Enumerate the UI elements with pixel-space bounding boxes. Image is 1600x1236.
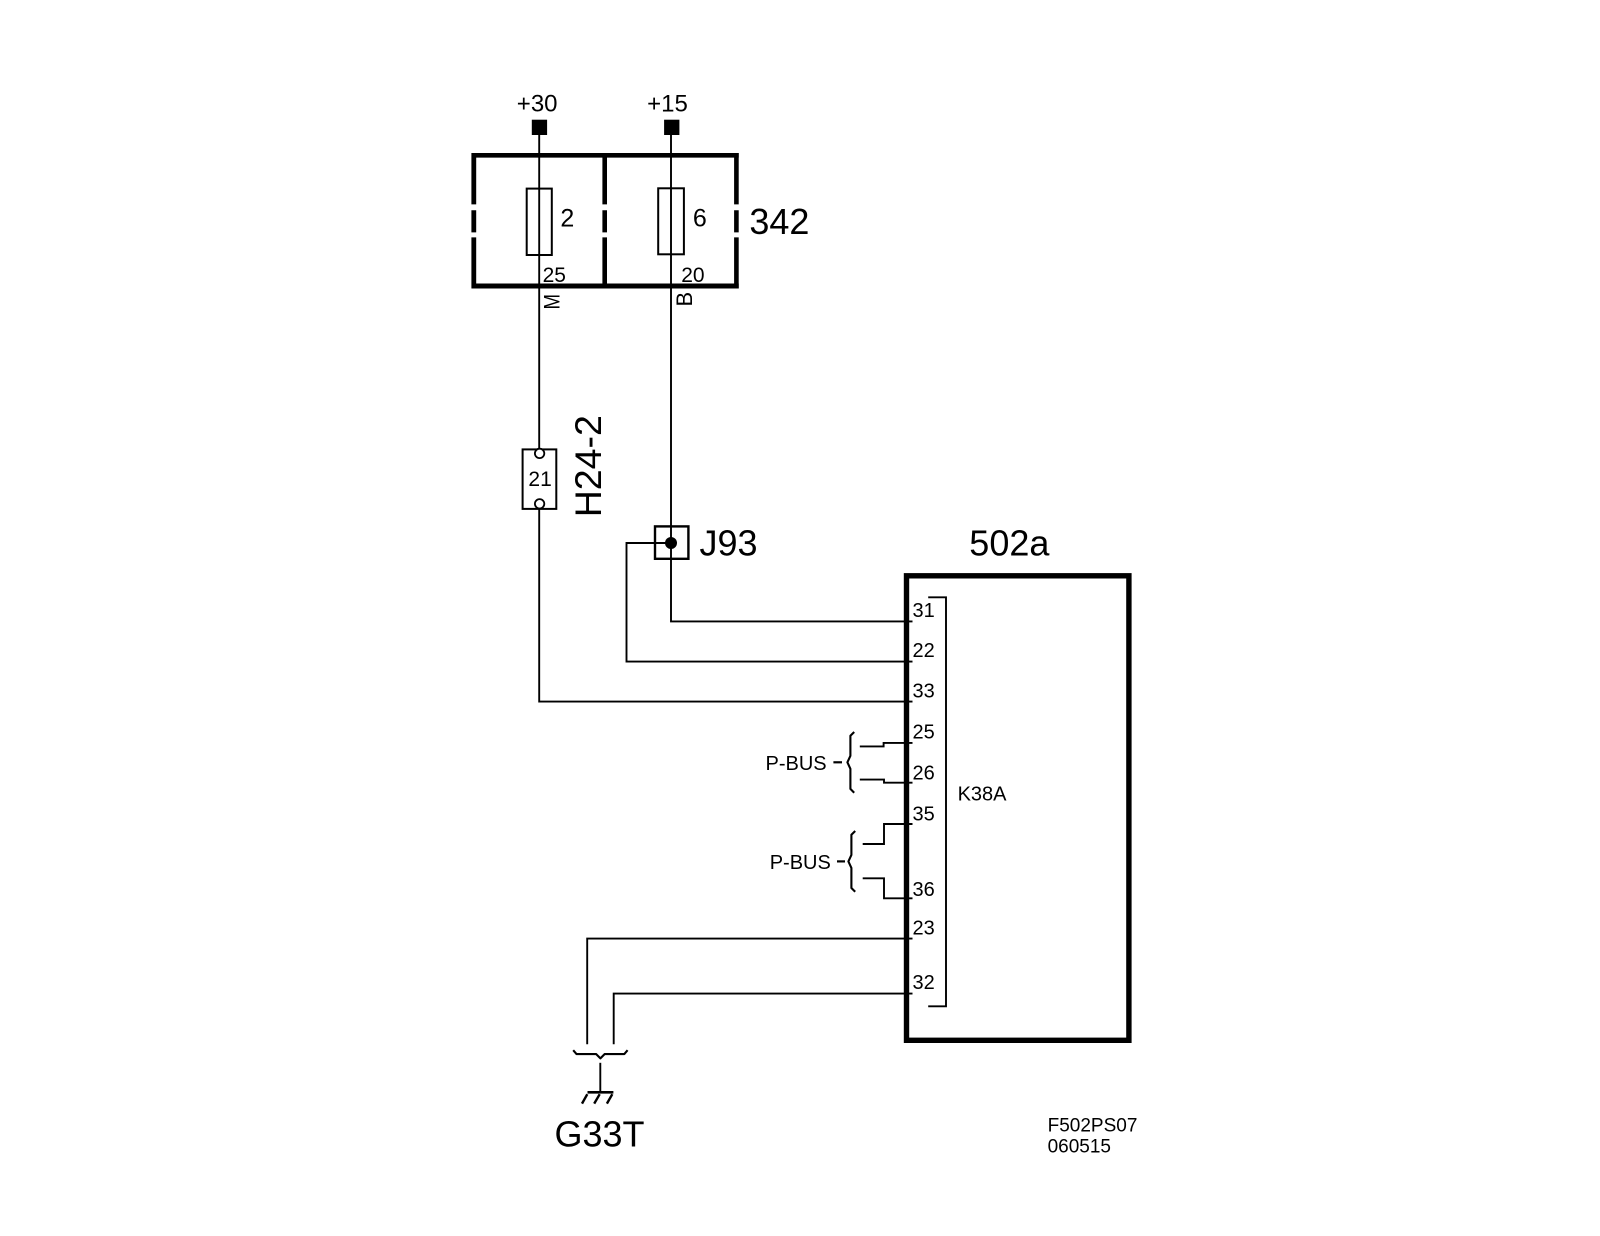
svg-text:6: 6	[693, 204, 707, 232]
svg-text:+15: +15	[647, 90, 688, 117]
svg-text:33: 33	[913, 680, 935, 702]
svg-text:B: B	[672, 292, 697, 307]
wire from J93 junction to pin 22 row	[627, 543, 913, 662]
svg-text:P-BUS: P-BUS	[770, 852, 831, 874]
wire from +30 through fuse 2 down to H24-2	[538, 135, 540, 449]
ground stem wire	[599, 1063, 601, 1091]
twisted pair stub to pin 26	[860, 780, 913, 783]
svg-text:21: 21	[528, 468, 551, 491]
ground wire from pin 32	[614, 994, 913, 1045]
fuse box 342 divider (dashed)	[602, 153, 607, 288]
svg-text:31: 31	[913, 600, 935, 622]
ground gathering brace	[573, 1050, 627, 1058]
svg-text:H24-2: H24-2	[567, 415, 609, 517]
svg-text:+30: +30	[517, 90, 558, 117]
twisted pair stub to pin 25	[860, 743, 913, 747]
wire from +15 through fuse 6 and J93 down to pin 31 row	[671, 135, 913, 621]
svg-text:F502PS07: F502PS07	[1048, 1116, 1138, 1137]
svg-text:502a: 502a	[969, 522, 1050, 563]
svg-text:22: 22	[913, 640, 935, 662]
svg-text:26: 26	[913, 763, 935, 785]
svg-text:25: 25	[913, 722, 935, 744]
fuse box 342 left edge (dashed)	[471, 153, 476, 288]
svg-text:P-BUS: P-BUS	[766, 753, 827, 775]
svg-text:36: 36	[913, 879, 935, 901]
wire from H24-2 down to pin 33 row	[539, 509, 912, 702]
node +15 terminal square	[664, 120, 679, 135]
ground symbol G33T	[582, 1092, 613, 1103]
twisted pair stub to pin 35	[863, 824, 913, 844]
svg-text:342: 342	[749, 201, 809, 242]
P-BUS dash (pins 25/26)	[833, 761, 842, 763]
svg-text:J93: J93	[700, 523, 758, 564]
fuse box 342 right edge (dashed)	[734, 153, 739, 288]
svg-text:23: 23	[913, 918, 935, 940]
node +30 terminal square	[532, 120, 547, 135]
connector H24-2 body	[523, 449, 557, 509]
P-BUS brace (pins 35/36)	[848, 831, 855, 892]
svg-text:25: 25	[543, 264, 566, 287]
ground wire from pin 23	[587, 939, 912, 1045]
P-BUS dash (pins 35/36)	[837, 860, 845, 862]
fuse 2 body	[527, 189, 552, 255]
fuse box 342 bottom edge	[472, 284, 739, 289]
svg-text:G33T: G33T	[555, 1114, 645, 1155]
connector H24-2 top terminal circle	[535, 449, 544, 458]
fuse 6 body	[658, 188, 684, 254]
svg-text:35: 35	[913, 804, 935, 826]
svg-text:32: 32	[913, 972, 935, 994]
ECU 502a body	[907, 576, 1129, 1041]
svg-text:K38A: K38A	[958, 784, 1008, 806]
joint connector J93 body	[655, 526, 688, 558]
joint connector J93 junction dot	[665, 537, 677, 549]
twisted pair stub to pin 36	[863, 878, 913, 898]
svg-text:2: 2	[560, 204, 574, 232]
ECU connector K38A bracket	[928, 597, 946, 1006]
svg-text:M: M	[541, 294, 565, 310]
svg-text:060515: 060515	[1048, 1137, 1111, 1158]
svg-text:20: 20	[681, 264, 704, 287]
P-BUS brace (pins 25/26)	[847, 732, 854, 793]
connector H24-2 bottom terminal circle	[535, 499, 544, 508]
fuse box 342 top edge	[472, 153, 739, 158]
